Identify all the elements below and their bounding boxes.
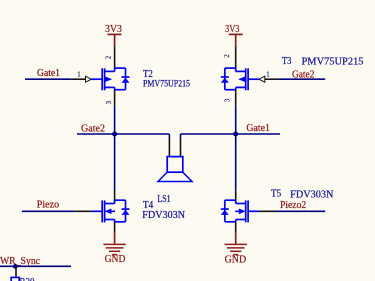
- svg-text:2: 2: [105, 55, 113, 59]
- svg-text:1: 1: [266, 71, 270, 79]
- svg-text:Piezo: Piezo: [37, 200, 59, 211]
- svg-text:Piezo2: Piezo2: [280, 200, 306, 211]
- svg-text:PMV75UP215: PMV75UP215: [143, 78, 190, 88]
- svg-text:3V3: 3V3: [105, 24, 122, 35]
- svg-text:FDV303N: FDV303N: [142, 210, 185, 221]
- speaker LS1 body rectangle: [167, 157, 183, 173]
- svg-text:Gate1: Gate1: [246, 123, 270, 134]
- ground symbol (right): [235, 233, 237, 244]
- svg-text:3: 3: [223, 98, 231, 102]
- svg-text:WR_Sync: WR_Sync: [0, 256, 41, 267]
- svg-text:R20: R20: [20, 277, 35, 281]
- transistor T3 body (PMV75UP215 P-MOSFET, mirrored): [247, 68, 249, 90]
- junction dot WR_Sync node: [13, 264, 18, 269]
- svg-text:Gate2: Gate2: [292, 70, 314, 81]
- transistor T3 pin 3 (drain): [235, 90, 237, 106]
- wire net Gate1 (top left): [25, 78, 71, 80]
- transistor T4 body (FDV303N N-MOSFET): [101, 200, 103, 222]
- svg-text:T3: T3: [282, 56, 291, 67]
- wire to LS1 left pin: [168, 134, 170, 138]
- transistor T4 pin 3 (source, to GND): [114, 222, 116, 233]
- transistor T5 pin 2 (drain, to Gate1 node): [235, 190, 237, 201]
- wire right rail junction to T5 drain: [235, 134, 237, 190]
- wire net Piezo2 (right): [276, 210, 326, 212]
- svg-text:3: 3: [105, 100, 113, 104]
- svg-text:T5: T5: [271, 189, 281, 200]
- power port 3V3 (left) stem: [114, 34, 116, 46]
- wire net Gate1 (middle right): [181, 133, 281, 135]
- transistor T3 pin 1 (gate) with arrow: [265, 78, 279, 80]
- svg-text:GND: GND: [225, 255, 247, 266]
- svg-text:PMV75UP215: PMV75UP215: [302, 57, 364, 68]
- transistor T3 pin 2 (to 3V3): [235, 46, 237, 68]
- transistor T2 pin 2 (to 3V3): [114, 46, 116, 68]
- junction dot right (Gate1 node): [233, 132, 238, 137]
- svg-text:GND: GND: [105, 254, 126, 265]
- svg-text:Gate2: Gate2: [81, 124, 105, 135]
- svg-text:1: 1: [77, 71, 81, 79]
- resistor R20 pin (from WR_Sync node): [15, 266, 17, 277]
- svg-text:Gate1: Gate1: [37, 68, 60, 79]
- transistor T5 pin 1 (gate): [259, 210, 276, 212]
- wire net Piezo (left): [22, 210, 75, 212]
- svg-text:2: 2: [223, 54, 231, 58]
- transistor T5 body (FDV303N N-MOSFET, mirrored): [247, 200, 249, 222]
- transistor T2 body (PMV75UP215 P-MOSFET): [101, 68, 103, 90]
- speaker LS1 pin 2: [180, 138, 182, 157]
- power port 3V3 (right) stem: [235, 34, 237, 46]
- transistor T4 pin 1 (gate): [75, 210, 92, 212]
- speaker LS1 horn: [158, 172, 192, 181]
- wire net Gate2 (top right): [279, 78, 325, 80]
- wire left rail junction to T4 drain: [114, 134, 116, 190]
- svg-text:3V3: 3V3: [225, 24, 240, 35]
- power port 3V3 (right) bar: [229, 33, 243, 35]
- wire net Gate2 (middle left): [77, 133, 169, 135]
- speaker LS1 pin 1: [168, 138, 170, 157]
- wire left rail T2 drain to junction: [114, 106, 116, 134]
- ground symbol (left): [114, 233, 116, 244]
- svg-text:FDV303N: FDV303N: [290, 190, 333, 201]
- transistor T4 pin 2 (drain, to Gate2 node): [114, 190, 116, 201]
- svg-text:LS1: LS1: [157, 194, 170, 205]
- wire net WR_Sync: [0, 265, 71, 267]
- wire to LS1 right pin: [180, 134, 182, 138]
- junction dot left (Gate2 node): [112, 132, 117, 137]
- transistor T2 pin 3 (drain): [114, 90, 116, 106]
- transistor T2 pin 1 (gate) with arrow: [71, 78, 85, 80]
- wire right rail T3 drain to junction: [235, 106, 237, 134]
- power port 3V3 (left) bar: [108, 33, 122, 35]
- resistor R20 body (cut off at bottom edge): [11, 277, 19, 281]
- transistor T5 pin 3 (source, to GND): [235, 222, 237, 233]
